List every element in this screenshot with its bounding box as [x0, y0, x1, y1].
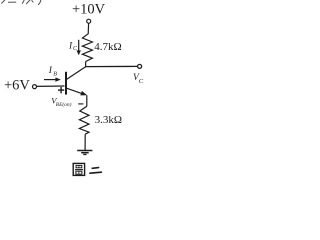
wire: resistor RE bottom to ground — [84, 134, 86, 150]
svg-text:4.7kΩ: 4.7kΩ — [94, 41, 121, 53]
ground symbol — [77, 151, 92, 155]
plus sign (Vbe polarity) — [58, 87, 64, 93]
clipped text fragment "(20%)" top-left — [2, 0, 41, 5]
svg-text:+10V: +10V — [72, 2, 106, 18]
minus sign (Vbe polarity) — [78, 103, 83, 105]
wire: resistor RC bottom to collector node — [85, 62, 87, 67]
current arrow Ib — [44, 77, 61, 81]
transistor Q1 emitter lead with arrow — [67, 88, 88, 95]
terminal +10V — [87, 19, 91, 23]
current arrow Ic — [77, 40, 81, 55]
terminal Vc — [138, 64, 142, 68]
transistor Q1 collector lead — [66, 67, 86, 80]
caption character "二" (drawn) — [90, 168, 101, 174]
wire: collector node to Vc terminal — [86, 65, 138, 67]
transistor Q1 base bar — [65, 72, 67, 95]
caption character "圖" (drawn) — [73, 163, 84, 175]
terminal +6V — [33, 85, 37, 89]
wire: emitter to resistor RE top — [86, 95, 88, 106]
wire: +6V terminal to base — [37, 85, 65, 87]
resistor RC 4.7k zigzag — [82, 34, 92, 62]
svg-text:B: B — [53, 72, 57, 78]
svg-text:3.3kΩ: 3.3kΩ — [95, 114, 122, 126]
svg-text:BE(on): BE(on) — [56, 101, 72, 108]
svg-text:C: C — [139, 78, 144, 85]
resistor RE 3.3k zigzag — [79, 106, 89, 134]
wire: +10V terminal to resistor RC top — [87, 23, 89, 34]
svg-text:+6V: +6V — [4, 78, 30, 94]
